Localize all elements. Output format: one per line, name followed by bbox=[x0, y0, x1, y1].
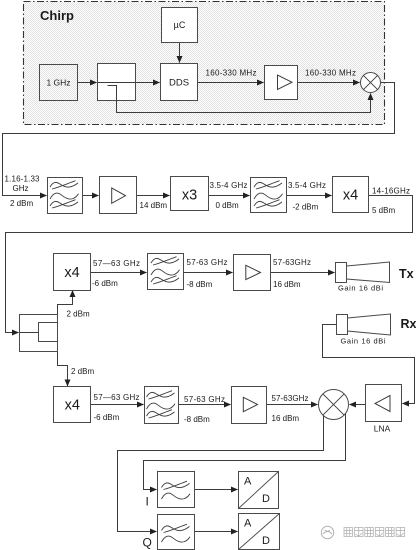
svg-text:2 dBm: 2 dBm bbox=[67, 310, 90, 319]
svg-text:D: D bbox=[262, 493, 270, 505]
svg-text:µC: µC bbox=[174, 20, 186, 30]
svg-text:1 GHz: 1 GHz bbox=[46, 78, 70, 88]
svg-text:1.16-1.33: 1.16-1.33 bbox=[5, 175, 41, 184]
svg-text:2 dBm: 2 dBm bbox=[10, 199, 33, 208]
svg-text:2 dBm: 2 dBm bbox=[71, 367, 94, 376]
svg-text:A: A bbox=[244, 476, 252, 488]
svg-text:-8 dBm: -8 dBm bbox=[187, 280, 213, 289]
svg-text:x4: x4 bbox=[65, 398, 80, 414]
svg-text:DDS: DDS bbox=[169, 78, 189, 89]
svg-text:5 dBm: 5 dBm bbox=[372, 206, 395, 215]
svg-text:-8 dBm: -8 dBm bbox=[184, 415, 210, 424]
svg-text:Q: Q bbox=[143, 536, 152, 550]
svg-text:57—63 GHz: 57—63 GHz bbox=[93, 259, 140, 268]
svg-text:Rx: Rx bbox=[401, 317, 416, 331]
svg-text:16 dBm: 16 dBm bbox=[272, 414, 300, 423]
svg-text:D: D bbox=[262, 535, 270, 547]
svg-text:-6 dBm: -6 dBm bbox=[92, 279, 118, 288]
svg-text:160-330 MHz: 160-330 MHz bbox=[206, 69, 257, 78]
svg-text:LNA: LNA bbox=[374, 424, 391, 434]
svg-text:57-63 GHz: 57-63 GHz bbox=[184, 395, 225, 404]
svg-text:3.5-4 GHz: 3.5-4 GHz bbox=[210, 181, 248, 190]
svg-text:GHz: GHz bbox=[13, 184, 29, 193]
svg-text:160-330 MHz: 160-330 MHz bbox=[305, 69, 356, 78]
svg-text:57-63GHz: 57-63GHz bbox=[272, 394, 309, 403]
svg-text:Gain 16 dBi: Gain 16 dBi bbox=[341, 337, 386, 346]
svg-text:-2 dBm: -2 dBm bbox=[293, 203, 319, 212]
svg-text:Chirp: Chirp bbox=[40, 8, 74, 23]
svg-text:16 dBm: 16 dBm bbox=[273, 280, 301, 289]
svg-text:14-16GHz: 14-16GHz bbox=[372, 187, 410, 196]
svg-text:I: I bbox=[146, 495, 149, 509]
svg-text:A: A bbox=[244, 518, 252, 530]
svg-text:x4: x4 bbox=[64, 265, 79, 281]
svg-text:57-63 GHz: 57-63 GHz bbox=[187, 258, 228, 267]
svg-text:x3: x3 bbox=[182, 188, 197, 204]
svg-text:14 dBm: 14 dBm bbox=[140, 201, 168, 210]
svg-text:0 dBm: 0 dBm bbox=[216, 201, 239, 210]
svg-text:x4: x4 bbox=[343, 188, 358, 204]
svg-text:Tx: Tx bbox=[399, 267, 414, 281]
svg-text:-6 dBm: -6 dBm bbox=[94, 413, 120, 422]
svg-text:57—63 GHz: 57—63 GHz bbox=[94, 393, 140, 402]
svg-text:Gain 16 dBi: Gain 16 dBi bbox=[338, 284, 383, 293]
svg-text:57-63GHz: 57-63GHz bbox=[273, 258, 311, 267]
svg-text:3.5-4 GHz: 3.5-4 GHz bbox=[288, 181, 326, 190]
